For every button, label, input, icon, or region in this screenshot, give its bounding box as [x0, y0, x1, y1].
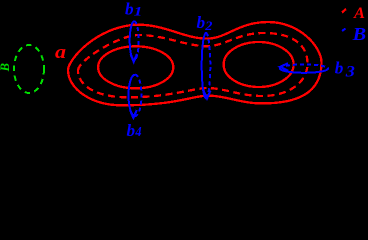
- surface outer boundary: [68, 22, 322, 105]
- svg-text:b: b: [335, 58, 344, 77]
- curve b4 (meridian, left bottom tube): [129, 75, 136, 116]
- svg-text:A: A: [353, 5, 365, 22]
- svg-text:b: b: [127, 121, 136, 136]
- curve b1 (meridian, left top tube): [130, 21, 134, 60]
- svg-text:1: 1: [134, 5, 143, 19]
- svg-text:4: 4: [134, 124, 141, 136]
- svg-text:B: B: [351, 24, 366, 44]
- small blue mark left of B: [342, 29, 346, 32]
- left hole: [98, 46, 173, 88]
- curve b3 (meridian, right tube, horizontal): [280, 69, 328, 73]
- svg-text:a: a: [55, 43, 66, 63]
- arrowhead b1: [131, 54, 138, 62]
- arrowhead b3: [280, 63, 288, 71]
- svg-text:2: 2: [204, 19, 213, 33]
- arrowhead b4: [130, 110, 137, 118]
- right hole: [224, 42, 294, 87]
- dashed curve parallel to boundary: [78, 33, 308, 97]
- arrowhead b2: [204, 91, 211, 99]
- svg-text:b: b: [197, 13, 206, 32]
- curve b2 (meridian, neck): [202, 33, 206, 98]
- small red mark left of A: [342, 9, 346, 13]
- green dashed circle (left): [14, 45, 44, 93]
- svg-text:B: B: [0, 63, 12, 72]
- svg-text:3: 3: [345, 63, 356, 80]
